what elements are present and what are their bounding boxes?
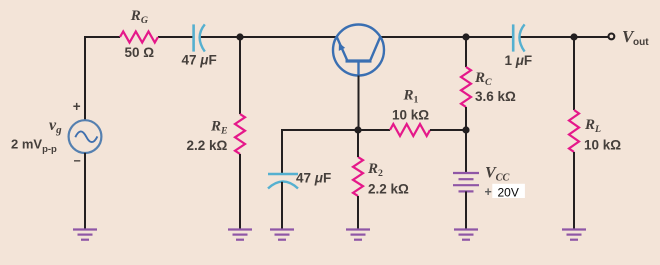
svg-text:50 Ω: 50 Ω	[125, 45, 155, 60]
wire R1 to node E	[430, 129, 466, 131]
node A	[236, 33, 243, 40]
svg-text:out: out	[633, 37, 649, 48]
capacitor C1 47uF	[194, 24, 205, 51]
svg-text:2.2 kΩ: 2.2 kΩ	[368, 182, 409, 197]
white patch behind 20V	[492, 184, 525, 198]
collector lead	[370, 37, 380, 61]
terminal Vout	[609, 34, 615, 40]
wire node A to transistor emitter	[240, 36, 337, 38]
capacitor C3 1uF	[513, 24, 524, 51]
wire battery to ground	[465, 191, 467, 229]
wire vg branch lower	[84, 153, 86, 230]
svg-text:10 kΩ: 10 kΩ	[584, 138, 621, 153]
wire C2 to ground	[281, 182, 283, 230]
svg-text:3.6 kΩ: 3.6 kΩ	[475, 89, 516, 104]
wire R2 to ground	[357, 196, 359, 230]
resistor R1	[390, 124, 430, 136]
wire vg branch upper	[84, 36, 86, 120]
wire RG to C1	[158, 36, 194, 38]
wire corner down to C2	[281, 129, 283, 174]
wire C3 to node C	[520, 36, 574, 38]
base lead inside circle	[357, 61, 359, 76]
emitter lead	[337, 37, 348, 61]
resistor RL	[569, 110, 579, 152]
node B (collector rail)	[462, 33, 469, 40]
wire node C to RL	[573, 37, 575, 110]
capacitor C2 47uF bypass	[268, 174, 298, 189]
battery VCC	[453, 173, 479, 191]
svg-text:+: +	[485, 185, 492, 199]
wire C1 to node A	[200, 36, 240, 38]
wire base to node D	[357, 76, 360, 131]
transistor Q1	[333, 25, 384, 76]
svg-text:47 μF: 47 μF	[182, 53, 217, 68]
resistor RG	[120, 32, 158, 43]
resistor RE	[235, 114, 245, 154]
ground (C2)	[270, 230, 294, 240]
wire node D to R2	[357, 130, 359, 157]
ground (RE)	[228, 230, 252, 240]
svg-text:10 kΩ: 10 kΩ	[392, 107, 429, 122]
wire RE branch upper	[239, 37, 241, 114]
wire top rail left	[85, 36, 120, 38]
wire transistor collector to node B	[381, 36, 467, 38]
wire node B to RC	[465, 37, 467, 67]
wire node C to Vout terminal	[574, 36, 608, 38]
wire node E to battery	[465, 130, 467, 173]
svg-text:2.2 kΩ: 2.2 kΩ	[187, 138, 228, 153]
svg-text:47 μF: 47 μF	[296, 171, 331, 186]
wire RE branch lower	[239, 154, 241, 230]
ground (R2)	[346, 230, 370, 240]
source Vg	[69, 120, 102, 153]
ground (VCC)	[454, 230, 478, 240]
svg-text:1 μF: 1 μF	[505, 53, 533, 68]
node C (output rail)	[570, 33, 577, 40]
wire RL to ground	[573, 152, 575, 230]
ground (RL)	[562, 230, 586, 240]
node D (base)	[354, 126, 361, 133]
resistor R2	[353, 157, 363, 196]
resistor RC	[461, 67, 471, 107]
ground (source)	[73, 230, 97, 240]
emitter arrow	[339, 44, 344, 51]
wire node D to R1	[358, 129, 390, 131]
svg-text:20V: 20V	[498, 186, 519, 200]
node E	[462, 126, 469, 133]
base bar	[346, 59, 372, 62]
wire node B to C3	[466, 36, 513, 38]
wire middle rail left to corner	[283, 129, 358, 131]
svg-text:+: +	[73, 99, 81, 114]
svg-text:−: −	[74, 154, 81, 168]
wire RC to node E	[465, 107, 467, 130]
